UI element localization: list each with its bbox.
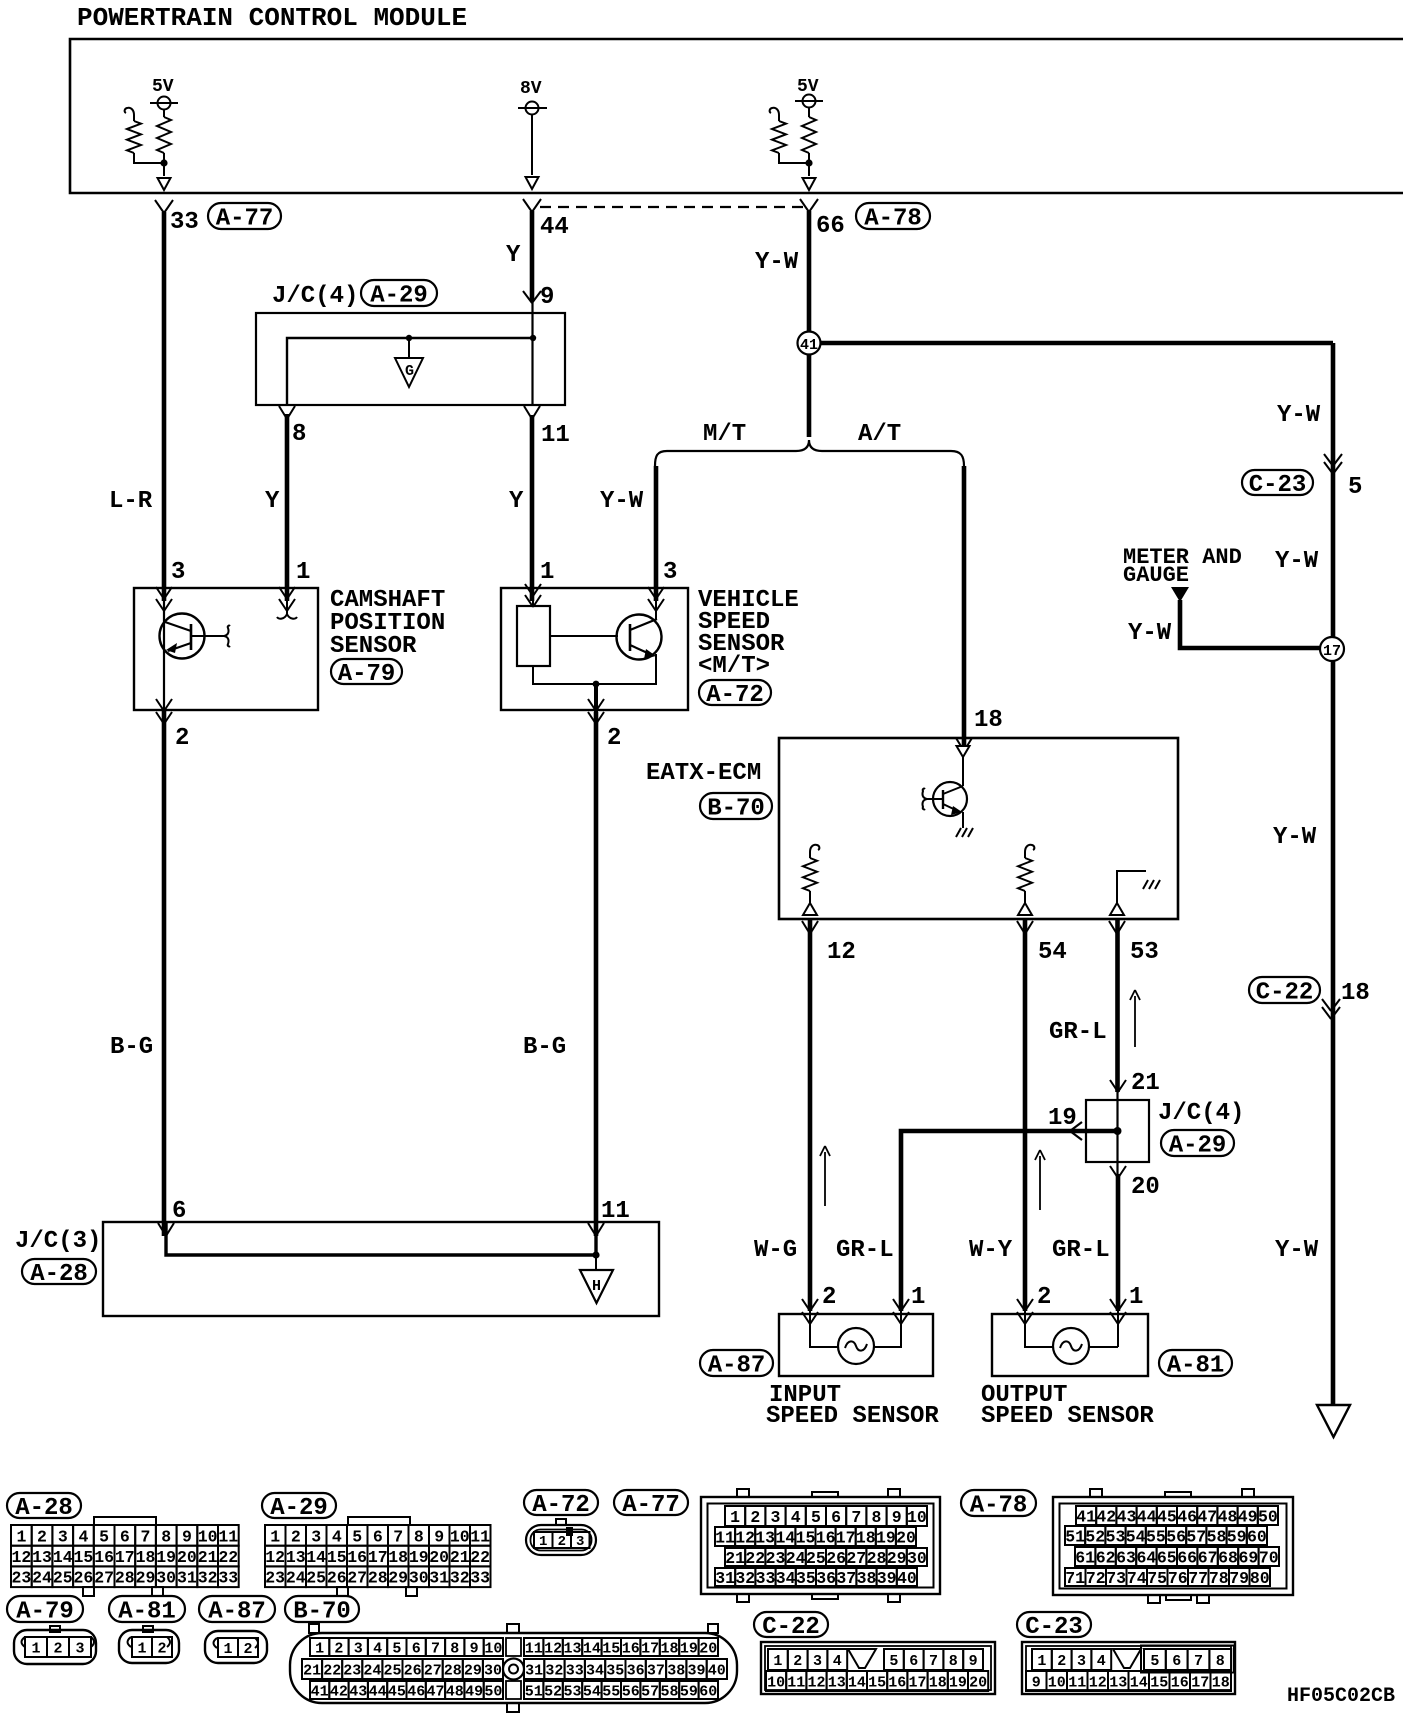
svg-text:30: 30 (156, 1569, 176, 1588)
meter tap solid arrow (1171, 587, 1189, 602)
svg-text:2: 2 (53, 1640, 62, 1657)
svg-text:2: 2 (37, 1527, 47, 1546)
svg-text:Y-W: Y-W (1275, 548, 1319, 575)
svg-text:A-77: A-77 (622, 1492, 680, 1519)
svg-text:27: 27 (424, 1662, 442, 1679)
svg-text:67: 67 (1198, 1548, 1218, 1567)
svg-text:1: 1 (137, 1640, 146, 1657)
svg-text:77: 77 (1188, 1569, 1208, 1588)
svg-text:7: 7 (851, 1508, 861, 1527)
svg-text:27: 27 (347, 1569, 367, 1588)
svg-text:20: 20 (896, 1528, 916, 1547)
svg-text:56: 56 (622, 1683, 640, 1700)
svg-text:Y-W: Y-W (600, 488, 644, 515)
svg-text:HF05C02CB: HF05C02CB (1287, 1685, 1395, 1708)
input sensor pin 2 forks (802, 1299, 810, 1311)
svg-text:56: 56 (1166, 1527, 1186, 1546)
pin 20 terminal fork (1110, 1166, 1118, 1178)
arrow to pin 66 inside PCM (803, 178, 816, 190)
J/C(4) internal bus wire (287, 338, 533, 405)
pin 1 internal stub (277, 588, 297, 619)
svg-text:31: 31 (715, 1569, 735, 1588)
svg-text:31: 31 (177, 1569, 197, 1588)
svg-text:6: 6 (1172, 1653, 1181, 1670)
connector C-23 label (1017, 1612, 1091, 1637)
svg-text:36: 36 (816, 1569, 836, 1588)
svg-text:J/C(3): J/C(3) (15, 1228, 101, 1255)
svg-text:<M/T>: <M/T> (698, 653, 770, 680)
svg-text:18: 18 (660, 1640, 678, 1657)
connector A-79 housing (50, 1626, 60, 1632)
svg-text:GAUGE: GAUGE (1123, 563, 1189, 588)
pin 1 entry forks (VSS) (525, 584, 533, 596)
svg-text:H: H (592, 1278, 601, 1295)
pin 1 entry forks (279, 587, 287, 599)
junction block J/C(3) A-28 box (103, 1222, 659, 1316)
svg-text:79: 79 (1229, 1569, 1249, 1588)
svg-text:10: 10 (450, 1527, 470, 1546)
svg-text:59: 59 (680, 1683, 698, 1700)
svg-text:33: 33 (470, 1569, 490, 1588)
svg-text:3: 3 (663, 559, 677, 586)
svg-text:23: 23 (11, 1569, 31, 1588)
connector A-77 label (614, 1490, 688, 1515)
svg-text:21: 21 (450, 1548, 470, 1567)
svg-text:C-22: C-22 (1256, 980, 1314, 1007)
pullup resistor (left pair, inner) (163, 110, 165, 118)
svg-text:A-29: A-29 (370, 283, 428, 310)
svg-text:41: 41 (311, 1683, 329, 1700)
svg-text:1: 1 (315, 1640, 324, 1657)
svg-text:16: 16 (622, 1640, 640, 1657)
svg-text:4: 4 (78, 1527, 88, 1546)
wire Y-W A/T branch to EATX-ECM pin 18 (962, 466, 967, 751)
connector A-81 pin cells (132, 1637, 152, 1657)
direction arrow (GR-L to pin 53) (1134, 996, 1136, 1047)
svg-text:40: 40 (708, 1662, 726, 1679)
connector B-70 label (285, 1596, 359, 1622)
svg-text:49: 49 (465, 1683, 483, 1700)
svg-text:Y-W: Y-W (755, 249, 799, 276)
pin 66 terminal fork (800, 199, 809, 212)
EATX internal ground at pin 53 (1110, 903, 1124, 915)
svg-text:6: 6 (909, 1653, 918, 1670)
svg-text:62: 62 (1096, 1548, 1116, 1567)
wire Y-W from junction 41 to right riser (818, 341, 1333, 346)
wire B-G VSS pin 2 to J/C(3) pin 11 (594, 712, 599, 1236)
svg-text:2: 2 (750, 1508, 760, 1527)
svg-text:8V: 8V (520, 79, 542, 99)
svg-text:21: 21 (725, 1549, 745, 1568)
svg-text:1: 1 (270, 1527, 280, 1546)
connector A-81 housing (143, 1626, 153, 1632)
direction arrow (output sensor signal) (1039, 1156, 1041, 1210)
svg-text:53: 53 (563, 1683, 581, 1700)
svg-text:40: 40 (897, 1569, 917, 1588)
svg-text:20: 20 (699, 1640, 717, 1657)
svg-text:14: 14 (306, 1548, 326, 1567)
svg-text:18: 18 (388, 1548, 408, 1567)
connector C-22 latch (848, 1649, 876, 1668)
svg-text:6: 6 (412, 1640, 421, 1657)
svg-text:J/C(4): J/C(4) (1158, 1100, 1244, 1127)
svg-text:32: 32 (735, 1569, 755, 1588)
svg-text:18: 18 (1341, 980, 1370, 1007)
svg-text:28: 28 (368, 1569, 388, 1588)
wire Y-W from pin 66 down to M/T / A/T split (807, 211, 812, 437)
svg-text:A-78: A-78 (864, 206, 922, 233)
pin 19 arrowhead (1070, 1122, 1082, 1140)
connector A-78 label (961, 1490, 1036, 1516)
svg-text:24: 24 (363, 1662, 381, 1679)
svg-text:A-29: A-29 (270, 1495, 328, 1522)
svg-text:21: 21 (303, 1662, 321, 1679)
VSS pin 2 stub (594, 684, 598, 712)
EATX transistor base stub (927, 798, 943, 800)
5V supply symbol (right) (803, 95, 816, 108)
connector A-78 pin grid (1076, 1506, 1096, 1525)
connector A-77 pin grid (725, 1506, 745, 1526)
connector A-72 pin cells (534, 1532, 553, 1548)
svg-text:24: 24 (286, 1569, 306, 1588)
thin stub J/C(4) bottom to pin 20 fork (1116, 1162, 1118, 1176)
svg-text:3: 3 (576, 1534, 584, 1550)
svg-text:2: 2 (607, 725, 621, 752)
svg-text:25: 25 (53, 1569, 73, 1588)
svg-text:21: 21 (1131, 1070, 1160, 1097)
thin wire through J/C(4) lower (1116, 1092, 1118, 1162)
connector C-23 latch (1113, 1649, 1141, 1668)
svg-text:24: 24 (32, 1569, 52, 1588)
pin 3 entry forks (VSS) (648, 587, 656, 599)
page continuation forks at C-22 (1322, 999, 1331, 1011)
svg-text:31: 31 (429, 1569, 449, 1588)
ground symbol G (triangle) (395, 358, 423, 387)
pin 6 terminal fork (158, 1223, 166, 1236)
svg-text:58: 58 (660, 1683, 678, 1700)
connector ref A-78 at pin 66 (856, 203, 930, 229)
svg-text:18: 18 (856, 1528, 876, 1547)
svg-text:63: 63 (1116, 1548, 1136, 1567)
svg-text:33: 33 (756, 1569, 776, 1588)
connector A-81 label (109, 1596, 185, 1622)
svg-text:48: 48 (446, 1683, 464, 1700)
connector A-28 label (7, 1493, 81, 1518)
wire Y-W to meter and gauge (1180, 600, 1322, 648)
VSS transistor (617, 615, 662, 660)
svg-text:16: 16 (94, 1548, 114, 1567)
svg-text:27: 27 (94, 1569, 114, 1588)
svg-text:49: 49 (1238, 1507, 1258, 1526)
pin 12 exit fork (802, 921, 810, 934)
svg-text:A-87: A-87 (708, 1353, 766, 1380)
svg-text:1: 1 (1129, 1284, 1143, 1311)
svg-text:41: 41 (1076, 1507, 1096, 1526)
arrow to pin 33 inside PCM (158, 178, 171, 190)
connector A-29 pin grid (265, 1525, 286, 1546)
svg-text:28: 28 (867, 1549, 887, 1568)
svg-text:17: 17 (836, 1528, 856, 1547)
svg-text:50: 50 (484, 1683, 502, 1700)
connector ref A-87 (700, 1350, 773, 1376)
svg-text:20: 20 (969, 1674, 987, 1691)
M/T A/T selection brace (655, 440, 964, 466)
svg-text:GR-L: GR-L (836, 1237, 894, 1264)
svg-text:25: 25 (806, 1549, 826, 1568)
svg-text:34: 34 (776, 1569, 796, 1588)
svg-text:29: 29 (887, 1549, 907, 1568)
junction block J/C(4) A-29 lower box (1086, 1100, 1149, 1162)
svg-text:5V: 5V (152, 77, 174, 97)
junction dot on bus at pin 9/11 wire (530, 335, 536, 341)
svg-text:2: 2 (1057, 1653, 1066, 1670)
svg-text:60: 60 (699, 1683, 717, 1700)
junction dot in J/C(4) lower (1114, 1127, 1122, 1135)
dashed wire between pin 44 and pin 66 (540, 206, 806, 208)
svg-text:C-23: C-23 (1249, 472, 1307, 499)
svg-text:14: 14 (1130, 1674, 1148, 1691)
svg-text:1: 1 (223, 1641, 232, 1658)
svg-text:8: 8 (292, 421, 306, 448)
wire Y J/C(4) pin 11 to vehicle speed sensor pin 1 (530, 415, 535, 601)
svg-text:GR-L: GR-L (1049, 1019, 1107, 1046)
svg-text:4: 4 (833, 1653, 842, 1670)
svg-text:54: 54 (1038, 939, 1067, 966)
svg-text:12: 12 (265, 1548, 285, 1567)
svg-text:1: 1 (911, 1284, 925, 1311)
output sensor pin 2 forks (1017, 1299, 1025, 1311)
svg-text:6: 6 (172, 1198, 186, 1225)
wire Y from J/C(4) pin 8 to camshaft sensor pin 1 (285, 414, 290, 601)
connector C-22 housing (761, 1642, 995, 1694)
svg-text:51: 51 (525, 1683, 543, 1700)
svg-text:Y-W: Y-W (1273, 824, 1317, 851)
svg-text:A-28: A-28 (30, 1261, 88, 1288)
wire Y pin 44 to J/C(4) pin 9 (530, 211, 535, 301)
svg-text:26: 26 (73, 1569, 93, 1588)
svg-text:6: 6 (831, 1508, 841, 1527)
svg-text:30: 30 (409, 1569, 429, 1588)
svg-text:54: 54 (583, 1683, 601, 1700)
svg-text:69: 69 (1238, 1548, 1258, 1567)
output speed sensor box A-81 (992, 1314, 1148, 1376)
EATX internal resistor at pin 54 (1025, 845, 1034, 858)
connector A-77 housing (701, 1497, 940, 1594)
svg-text:10: 10 (484, 1640, 502, 1657)
EATX transistor emitter ground (956, 828, 973, 837)
svg-text:5: 5 (99, 1527, 109, 1546)
VSS reed element (532, 588, 534, 606)
svg-text:32: 32 (450, 1569, 470, 1588)
svg-text:54: 54 (1126, 1527, 1146, 1546)
svg-text:8: 8 (450, 1640, 459, 1657)
junction dot J/C(3) (592, 1251, 599, 1258)
svg-text:11: 11 (541, 422, 570, 449)
wire 8V to pin 44 (531, 115, 533, 176)
svg-text:1: 1 (16, 1527, 26, 1546)
svg-text:42: 42 (330, 1683, 348, 1700)
svg-text:C-22: C-22 (762, 1614, 820, 1641)
svg-text:1: 1 (730, 1508, 740, 1527)
svg-text:70: 70 (1259, 1548, 1279, 1567)
svg-text:W-G: W-G (754, 1237, 797, 1264)
svg-text:17: 17 (368, 1548, 388, 1567)
svg-text:19: 19 (876, 1528, 896, 1547)
pin 21 terminal fork (1110, 1080, 1118, 1092)
svg-text:A-79: A-79 (338, 661, 396, 688)
svg-text:13: 13 (563, 1640, 581, 1657)
svg-text:13: 13 (828, 1674, 846, 1691)
svg-text:Y: Y (509, 488, 524, 515)
svg-text:1: 1 (31, 1640, 40, 1657)
svg-text:29: 29 (388, 1569, 408, 1588)
connector ref A-77 at pin 33 (208, 203, 281, 229)
svg-text:24: 24 (786, 1549, 806, 1568)
svg-text:22: 22 (323, 1662, 341, 1679)
connector A-72 label (524, 1490, 598, 1515)
camshaft sensor transistor (hall element) (160, 614, 205, 659)
output sensor pin 1 forks (1110, 1299, 1118, 1311)
PCM box (powertrain control module outline) (70, 39, 1403, 193)
svg-text:13: 13 (286, 1548, 306, 1567)
svg-text:7: 7 (929, 1653, 938, 1670)
connector B-70 housing (290, 1633, 737, 1703)
svg-text:23: 23 (343, 1662, 361, 1679)
svg-text:16: 16 (1171, 1674, 1189, 1691)
svg-text:64: 64 (1136, 1548, 1156, 1567)
connector C-23 pin grid (1032, 1649, 1052, 1670)
svg-text:30: 30 (907, 1549, 927, 1568)
wire W-Y EATX pin 54 to output speed sensor pin 2 (1023, 920, 1028, 1311)
svg-text:5V: 5V (797, 77, 819, 97)
svg-text:11: 11 (1068, 1674, 1086, 1691)
pin 8 terminal fork (279, 406, 287, 419)
connector A-87 pin cells (218, 1638, 238, 1657)
svg-text:B-G: B-G (110, 1034, 153, 1061)
svg-text:POWERTRAIN CONTROL MODULE: POWERTRAIN CONTROL MODULE (77, 3, 467, 33)
svg-text:17: 17 (115, 1548, 135, 1567)
svg-text:19: 19 (409, 1548, 429, 1567)
wire GR-L EATX pin 53 to J/C(4) pin 21 (1115, 920, 1120, 1092)
svg-text:8: 8 (1216, 1653, 1225, 1670)
pin 44 terminal fork (523, 199, 532, 212)
svg-text:17: 17 (908, 1674, 926, 1691)
pullup resistor (right pair, inner) (808, 108, 810, 118)
svg-text:73: 73 (1106, 1569, 1126, 1588)
svg-text:53: 53 (1130, 939, 1159, 966)
svg-text:71: 71 (1065, 1569, 1085, 1588)
svg-text:55: 55 (602, 1683, 620, 1700)
junction dot VSS output (593, 681, 600, 688)
svg-text:4: 4 (791, 1508, 801, 1527)
svg-text:9: 9 (434, 1527, 444, 1546)
vehicle speed sensor box A-72 (501, 588, 688, 710)
svg-text:45: 45 (388, 1683, 406, 1700)
svg-text:33: 33 (566, 1662, 584, 1679)
svg-text:2: 2 (243, 1641, 252, 1658)
svg-text:21: 21 (198, 1548, 218, 1567)
svg-text:15: 15 (602, 1640, 620, 1657)
svg-text:52: 52 (544, 1683, 562, 1700)
svg-text:Y-W: Y-W (1275, 1237, 1319, 1264)
connector ref B-70 (schematic) (700, 793, 772, 819)
connector A-28 pin grid (11, 1525, 32, 1546)
svg-text:15: 15 (796, 1528, 816, 1547)
svg-text:11: 11 (218, 1527, 238, 1546)
svg-text:A-72: A-72 (532, 1492, 590, 1519)
camshaft position sensor box A-79 (134, 588, 318, 710)
svg-text:32: 32 (545, 1662, 563, 1679)
svg-text:61: 61 (1075, 1548, 1095, 1567)
svg-text:43: 43 (1117, 1507, 1137, 1526)
svg-text:16: 16 (816, 1528, 836, 1547)
connector A-79 label (7, 1596, 83, 1622)
svg-text:33: 33 (218, 1569, 238, 1588)
connector A-87 housing (205, 1631, 267, 1663)
svg-text:B-G: B-G (523, 1034, 566, 1061)
svg-text:Y: Y (506, 242, 521, 269)
svg-text:A-81: A-81 (1167, 1353, 1225, 1380)
junction dot (5V right) (805, 159, 812, 166)
svg-text:52: 52 (1085, 1527, 1105, 1546)
svg-text:19: 19 (949, 1674, 967, 1691)
svg-text:2: 2 (822, 1284, 836, 1311)
connector A-87 label (199, 1596, 275, 1622)
svg-text:23: 23 (766, 1549, 786, 1568)
connector B-70 pin grid (310, 1638, 329, 1656)
svg-text:2: 2 (175, 725, 189, 752)
svg-text:2: 2 (793, 1653, 802, 1670)
svg-text:11: 11 (470, 1527, 490, 1546)
svg-text:A-87: A-87 (208, 1599, 266, 1626)
svg-text:23: 23 (265, 1569, 285, 1588)
svg-text:48: 48 (1218, 1507, 1238, 1526)
connector ref A-29 (upper) (361, 280, 437, 306)
svg-text:B-70: B-70 (707, 796, 765, 823)
wire GR-L branch from J/C(4) pin 19 to input sensor pin 1 (901, 1131, 1118, 1311)
svg-text:47: 47 (426, 1683, 444, 1700)
svg-text:1: 1 (296, 559, 310, 586)
svg-text:8: 8 (872, 1508, 882, 1527)
svg-text:35: 35 (796, 1569, 816, 1588)
pin 3 entry forks (156, 587, 164, 599)
svg-text:8: 8 (161, 1527, 171, 1546)
right riser Y-W wire (1331, 343, 1336, 1405)
svg-text:25: 25 (383, 1662, 401, 1679)
connector A-72 housing (556, 1519, 566, 1525)
J/C(3) internal bus wire (166, 1222, 596, 1255)
wire L-R from pin 33 to camshaft sensor pin 3 (162, 212, 167, 601)
connector A-28 housing (94, 1517, 156, 1525)
svg-text:43: 43 (349, 1683, 367, 1700)
svg-text:58: 58 (1207, 1527, 1227, 1546)
svg-text:C-23: C-23 (1025, 1614, 1083, 1641)
svg-text:39: 39 (687, 1662, 705, 1679)
svg-text:65: 65 (1157, 1548, 1177, 1567)
svg-text:5: 5 (352, 1527, 362, 1546)
junction circle 41 (798, 332, 821, 355)
svg-text:Y-W: Y-W (1277, 402, 1321, 429)
svg-text:3: 3 (58, 1527, 68, 1546)
svg-text:78: 78 (1209, 1569, 1229, 1588)
svg-text:Y: Y (265, 488, 280, 515)
connector ref A-29 (lower) (1161, 1130, 1234, 1156)
svg-text:19: 19 (680, 1640, 698, 1657)
svg-text:2: 2 (334, 1640, 343, 1657)
svg-text:A/T: A/T (858, 421, 901, 448)
svg-text:SENSOR: SENSOR (330, 633, 417, 660)
svg-text:76: 76 (1168, 1569, 1188, 1588)
